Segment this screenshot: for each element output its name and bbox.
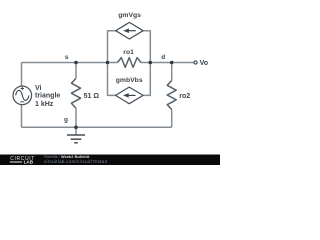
svg-text:51 Ω: 51 Ω [84, 93, 100, 100]
svg-text:Vo: Vo [200, 60, 208, 67]
svg-text:gmVgs: gmVgs [118, 12, 141, 19]
svg-text:Vi: Vi [35, 85, 42, 92]
svg-text:ro2: ro2 [179, 93, 190, 100]
svg-text:d: d [161, 54, 165, 61]
svg-text:gmbVbs: gmbVbs [116, 77, 143, 84]
svg-text:s: s [65, 54, 69, 61]
svg-text:LAB: LAB [24, 159, 34, 164]
svg-text:g: g [64, 117, 68, 124]
svg-text:circuitlab.com/circuit/7m2a4: circuitlab.com/circuit/7m2a4 [44, 159, 108, 164]
svg-text:1 kHz: 1 kHz [35, 101, 54, 108]
svg-text:ro1: ro1 [123, 49, 134, 56]
svg-text:triangle: triangle [35, 92, 60, 99]
